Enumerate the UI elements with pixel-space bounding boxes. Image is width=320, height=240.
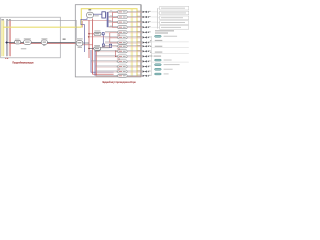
svg-text:Передний жгут проводов: Передний жгут проводов [12, 60, 34, 64]
svg-text:Задний жгут проводов в сборе: Задний жгут проводов в сборе [102, 80, 136, 84]
